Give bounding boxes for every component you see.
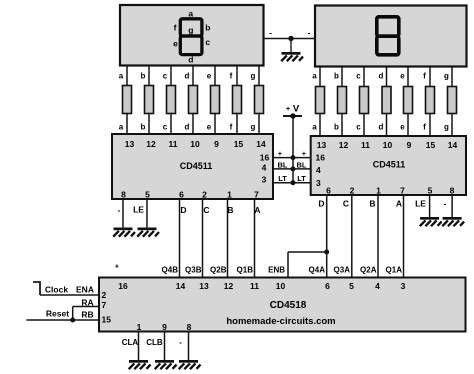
svg-text:1: 1 bbox=[376, 186, 381, 196]
svg-text:4: 4 bbox=[262, 163, 267, 173]
svg-text:LE: LE bbox=[133, 205, 144, 215]
svg-text:B: B bbox=[369, 199, 375, 209]
svg-text:+: + bbox=[115, 262, 120, 271]
ground (U1 pin 5) bbox=[137, 228, 159, 237]
display DS2 seven-segment 8 glyph bbox=[377, 17, 399, 55]
wire R7 to U1 pin (segment g) bbox=[251, 114, 259, 135]
svg-text:11: 11 bbox=[250, 281, 259, 291]
svg-text:BL: BL bbox=[278, 161, 288, 170]
wire U2 D (pin 6) to U3 Q4A (pin 6) bbox=[318, 195, 326, 278]
resistor R9 (segment b) bbox=[338, 87, 347, 114]
svg-text:3: 3 bbox=[401, 281, 406, 291]
wire U1 D (pin 6) to U3 Q4B (pin 14) bbox=[180, 199, 187, 278]
svg-text:d: d bbox=[185, 72, 190, 81]
resistor R5 (segment e) bbox=[211, 86, 220, 114]
svg-text:9: 9 bbox=[162, 322, 167, 332]
U1 top pin numbers 13 12 11 10 9 15 14 bbox=[125, 139, 266, 149]
svg-text:D: D bbox=[318, 199, 324, 209]
svg-text:+: + bbox=[286, 106, 290, 113]
U1 pin 5 LE wire to ground bbox=[133, 199, 147, 228]
wire DS2 segment e to R12 bbox=[400, 67, 408, 87]
svg-text:16: 16 bbox=[118, 281, 128, 291]
resistor R8 (segment a) bbox=[316, 87, 325, 114]
svg-text:15: 15 bbox=[102, 315, 112, 325]
svg-text:15: 15 bbox=[426, 140, 436, 150]
svg-text:a: a bbox=[312, 72, 317, 81]
wire R5 to U1 pin (segment e) bbox=[207, 114, 215, 135]
wire DS2 segment d to R11 bbox=[379, 67, 387, 87]
svg-text:f: f bbox=[423, 72, 426, 81]
resistor R14 (segment g) bbox=[448, 87, 457, 114]
svg-text:f: f bbox=[230, 72, 233, 81]
wire U1 pin4 BL to U2 pin4 BL bbox=[273, 161, 311, 170]
svg-text:a: a bbox=[119, 72, 124, 81]
resistor R13 (segment f) bbox=[426, 87, 435, 114]
svg-text:10: 10 bbox=[383, 140, 393, 150]
svg-text:3: 3 bbox=[316, 178, 321, 188]
junction dot (+V / pin16) bbox=[291, 155, 296, 160]
svg-text:-: - bbox=[308, 28, 311, 38]
svg-text:d: d bbox=[185, 123, 190, 132]
U3 pin16 + mark bbox=[115, 262, 120, 271]
svg-text:13: 13 bbox=[125, 139, 135, 149]
svg-text:V: V bbox=[293, 104, 300, 115]
U2 left side pin numbers 16 4 3 bbox=[316, 153, 326, 189]
svg-text:g: g bbox=[188, 25, 193, 35]
svg-text:f: f bbox=[174, 22, 177, 32]
clock input edge symbol bbox=[33, 282, 40, 295]
wire +V rail vertical bbox=[292, 116, 294, 183]
wire R6 to U1 pin (segment f) bbox=[230, 114, 237, 135]
wire DS1 segment g to R7 bbox=[251, 66, 259, 86]
svg-text:e: e bbox=[400, 123, 405, 132]
U1 bottom pin numbers 8 5 6 2 1 7 bbox=[121, 190, 259, 200]
resistor R3 (segment c) bbox=[167, 86, 176, 114]
svg-text:b: b bbox=[205, 22, 210, 32]
svg-text:C: C bbox=[203, 205, 209, 215]
resistor R7 (segment g) bbox=[255, 86, 264, 114]
wire U1 C (pin 2) to U3 Q3B (pin 13) bbox=[203, 199, 210, 278]
wire U1 pin16 to U2 pin16 bbox=[273, 149, 311, 158]
wire U3 CLB (pin 9) to ground bbox=[146, 332, 164, 361]
svg-text:16: 16 bbox=[260, 153, 270, 163]
svg-text:14: 14 bbox=[256, 139, 266, 149]
svg-text:6: 6 bbox=[326, 186, 331, 196]
svg-text:-: - bbox=[444, 199, 447, 209]
wire DS2 segment a to R8 bbox=[312, 67, 320, 87]
svg-text:10: 10 bbox=[276, 281, 286, 291]
junction dot (LT net) bbox=[291, 180, 296, 185]
svg-text:d: d bbox=[379, 123, 384, 132]
svg-text:g: g bbox=[251, 123, 256, 132]
wire Clock to U3 ENA (pin 2) bbox=[40, 285, 99, 296]
svg-text:8: 8 bbox=[121, 190, 126, 200]
svg-text:CLA: CLA bbox=[122, 338, 139, 347]
svg-text:b: b bbox=[334, 123, 339, 132]
svg-text:CLB: CLB bbox=[146, 338, 163, 347]
U2 bottom pin numbers 6 2 1 7 5 8 bbox=[326, 186, 455, 196]
svg-text:9: 9 bbox=[214, 139, 219, 149]
svg-text:e: e bbox=[400, 72, 405, 81]
svg-text:-: - bbox=[269, 28, 272, 38]
U1 right side pin numbers 16 4 3 bbox=[260, 153, 270, 185]
U2 top pin numbers 13 12 11 10 9 15 14 bbox=[317, 140, 458, 150]
svg-text:8: 8 bbox=[450, 186, 455, 196]
svg-text:g: g bbox=[251, 72, 256, 81]
wire U2 A (pin 7) to U3 Q1A (pin 3) bbox=[396, 195, 404, 278]
svg-text:Q2A: Q2A bbox=[360, 266, 377, 275]
junction dot (ENB-Q4A) bbox=[324, 250, 329, 255]
U3 bottom pin numbers 1 9 8 bbox=[137, 322, 192, 332]
+V supply node bbox=[283, 104, 302, 119]
svg-text:Q2B: Q2B bbox=[210, 266, 227, 275]
svg-text:f: f bbox=[230, 123, 233, 132]
svg-text:CD4511: CD4511 bbox=[373, 160, 406, 170]
display DS1 segment labels a f b g e c d bbox=[173, 9, 210, 65]
svg-text:C: C bbox=[343, 199, 349, 209]
svg-text:a: a bbox=[119, 123, 124, 132]
wire Reset to U3 RB (pin 15) bbox=[26, 309, 99, 321]
svg-text:e: e bbox=[207, 123, 212, 132]
svg-text:12: 12 bbox=[339, 140, 349, 150]
svg-text:4: 4 bbox=[316, 165, 321, 175]
resistor R2 (segment b) bbox=[145, 86, 154, 114]
svg-text:A: A bbox=[396, 199, 402, 209]
wire DS1 segment b to R2 bbox=[141, 66, 149, 86]
wire R12 to U2 pin (segment e) bbox=[400, 114, 408, 137]
svg-text:4: 4 bbox=[375, 281, 380, 291]
svg-text:CD4511: CD4511 bbox=[180, 161, 213, 171]
svg-text:a: a bbox=[188, 9, 193, 19]
svg-text:2: 2 bbox=[102, 290, 107, 300]
resistor R4 (segment d) bbox=[189, 86, 198, 114]
resistor R6 (segment f) bbox=[233, 86, 242, 114]
svg-text:9: 9 bbox=[407, 140, 412, 150]
svg-text:1: 1 bbox=[227, 190, 232, 200]
svg-text:RA: RA bbox=[81, 298, 93, 308]
svg-text:g: g bbox=[444, 123, 449, 132]
wire U3 CLA (pin 1) to ground bbox=[122, 332, 139, 361]
svg-text:2: 2 bbox=[202, 190, 207, 200]
IC U2 CD4511 (units decoder) bbox=[311, 136, 466, 195]
svg-text:B: B bbox=[227, 205, 233, 215]
resistor R12 (segment e) bbox=[404, 87, 413, 114]
svg-text:15: 15 bbox=[234, 139, 244, 149]
svg-text:7: 7 bbox=[254, 190, 259, 200]
wire R10 to U2 pin (segment c) bbox=[356, 114, 364, 137]
svg-text:BL: BL bbox=[297, 161, 307, 170]
ground (display cathodes) bbox=[281, 39, 303, 62]
U2 pin 8 wire to ground bbox=[444, 195, 453, 217]
wire R8 to U2 pin (segment a) bbox=[312, 114, 320, 137]
svg-text:14: 14 bbox=[176, 281, 186, 291]
wire DS2 segment b to R9 bbox=[334, 67, 342, 87]
svg-text:7: 7 bbox=[102, 300, 107, 310]
wire U1 B (pin 1) to U3 Q2B (pin 12) bbox=[227, 199, 233, 278]
junction dot (BL net) bbox=[291, 166, 296, 171]
svg-text:Q3A: Q3A bbox=[334, 266, 351, 275]
wire DS2 segment f to R13 bbox=[423, 67, 430, 87]
svg-text:homemade-circuits.com: homemade-circuits.com bbox=[226, 316, 335, 327]
wire DS1 segment a to R1 bbox=[119, 66, 127, 86]
svg-text:1: 1 bbox=[137, 322, 142, 332]
svg-text:e: e bbox=[173, 38, 178, 48]
wire reset branch to U3 RA (pin 7) bbox=[73, 298, 99, 321]
svg-text:f: f bbox=[423, 123, 426, 132]
svg-text:11: 11 bbox=[361, 140, 370, 150]
svg-text:c: c bbox=[163, 123, 168, 132]
ground (U3 CLB) bbox=[155, 360, 177, 369]
svg-text:b: b bbox=[334, 72, 339, 81]
svg-text:c: c bbox=[356, 123, 361, 132]
wire DS2 segment c to R10 bbox=[356, 67, 364, 87]
resistor R10 (segment c) bbox=[360, 87, 369, 114]
wire R14 to U2 pin (segment g) bbox=[444, 114, 452, 137]
svg-text:e: e bbox=[207, 72, 212, 81]
wire R11 to U2 pin (segment d) bbox=[379, 114, 387, 137]
svg-text:Q1B: Q1B bbox=[237, 266, 254, 275]
U3 output labels Q4B Q3B Q2B Q1B ENB Q4A Q3A Q2A Q1A bbox=[162, 266, 403, 275]
svg-text:Reset: Reset bbox=[46, 309, 69, 319]
wire U2 B (pin 1) to U3 Q2A (pin 4) bbox=[369, 195, 378, 278]
ground (U2 pin 8) bbox=[442, 217, 464, 226]
svg-text:c: c bbox=[163, 72, 168, 81]
svg-text:13: 13 bbox=[199, 281, 209, 291]
ground (U3 CLA) bbox=[129, 360, 151, 369]
svg-text:b: b bbox=[141, 72, 146, 81]
wire R9 to U2 pin (segment b) bbox=[334, 114, 342, 137]
svg-text:10: 10 bbox=[190, 139, 200, 149]
svg-text:RB: RB bbox=[81, 310, 93, 320]
svg-text:D: D bbox=[180, 205, 186, 215]
svg-text:13: 13 bbox=[317, 140, 327, 150]
svg-text:CD4518: CD4518 bbox=[270, 300, 307, 311]
svg-text:14: 14 bbox=[448, 140, 458, 150]
svg-text:8: 8 bbox=[187, 322, 192, 332]
wire R13 to U2 pin (segment f) bbox=[423, 114, 430, 137]
wire DS1 segment f to R6 bbox=[230, 66, 237, 86]
display DS2 (units digit) body bbox=[315, 6, 467, 67]
U3 top pin numbers bbox=[118, 281, 405, 291]
svg-text:LE: LE bbox=[415, 199, 426, 209]
svg-text:Q4B: Q4B bbox=[162, 266, 179, 275]
svg-text:LT: LT bbox=[297, 174, 306, 183]
wire U1 A (pin 7) to U3 Q1B (pin 11) bbox=[254, 199, 260, 278]
ground (U1 pin 8) bbox=[113, 228, 135, 237]
svg-text:12: 12 bbox=[224, 281, 234, 291]
svg-text:Q1A: Q1A bbox=[386, 266, 403, 275]
svg-text:A: A bbox=[254, 205, 260, 215]
svg-text:5: 5 bbox=[145, 190, 150, 200]
svg-text:d: d bbox=[188, 54, 193, 64]
svg-text:Clock: Clock bbox=[45, 285, 68, 295]
svg-text:-: - bbox=[179, 338, 182, 347]
svg-text:11: 11 bbox=[169, 139, 178, 149]
svg-text:12: 12 bbox=[146, 139, 156, 149]
wire R1 to U1 pin (segment a) bbox=[119, 114, 127, 135]
U3 left side pin numbers 2 7 15 bbox=[102, 290, 112, 325]
svg-text:g: g bbox=[444, 72, 449, 81]
U1 pin 8 wire to ground bbox=[118, 199, 123, 228]
svg-text:2: 2 bbox=[350, 186, 355, 196]
svg-text:ENA: ENA bbox=[76, 285, 94, 295]
ground (U3 pin 8) bbox=[179, 360, 201, 369]
wire R2 to U1 pin (segment b) bbox=[141, 114, 149, 135]
svg-text:16: 16 bbox=[316, 153, 326, 163]
resistor R11 (segment d) bbox=[382, 87, 391, 114]
wire DS1 segment e to R5 bbox=[207, 66, 215, 86]
wire DS1 segment d to R4 bbox=[185, 66, 193, 86]
junction dot (cathode net) bbox=[288, 36, 293, 41]
svg-text:+: + bbox=[278, 149, 283, 158]
svg-text:ENB: ENB bbox=[268, 266, 285, 275]
svg-text:LT: LT bbox=[278, 174, 287, 183]
svg-text:d: d bbox=[379, 72, 384, 81]
svg-text:c: c bbox=[356, 72, 361, 81]
junction dot (reset net) bbox=[70, 318, 75, 323]
svg-text:Q4A: Q4A bbox=[309, 266, 326, 275]
svg-text:Q3B: Q3B bbox=[185, 266, 202, 275]
svg-text:b: b bbox=[141, 123, 146, 132]
display DS1 seven-segment 8 glyph bbox=[180, 19, 202, 55]
svg-text:6: 6 bbox=[325, 281, 330, 291]
svg-text:a: a bbox=[312, 123, 317, 132]
node: common cathode wire DS1 to DS2 bbox=[264, 28, 316, 39]
svg-text:c: c bbox=[205, 37, 210, 47]
svg-text:5: 5 bbox=[349, 281, 354, 291]
U2 pin 5 LE wire to ground bbox=[415, 195, 430, 217]
ground (U2 pin 5) bbox=[420, 217, 442, 226]
svg-text:+: + bbox=[302, 149, 307, 158]
svg-text:-: - bbox=[118, 205, 121, 215]
wire DS1 segment c to R3 bbox=[163, 66, 171, 86]
wire U2 C (pin 2) to U3 Q3A (pin 5) bbox=[343, 195, 352, 278]
svg-text:6: 6 bbox=[179, 190, 184, 200]
wire DS2 segment g to R14 bbox=[444, 67, 452, 87]
wire R4 to U1 pin (segment d) bbox=[185, 114, 193, 135]
svg-text:5: 5 bbox=[428, 186, 433, 196]
display DS1 (tens digit) body bbox=[120, 5, 264, 66]
svg-text:7: 7 bbox=[400, 186, 405, 196]
wire R3 to U1 pin (segment c) bbox=[163, 114, 171, 135]
IC U1 CD4511 (tens decoder) bbox=[112, 134, 273, 199]
resistor R1 (segment a) bbox=[123, 86, 132, 114]
svg-text:3: 3 bbox=[262, 175, 267, 185]
wire U1 pin3 LT to U2 pin3 LT bbox=[273, 174, 311, 183]
wire U3 ENB (pin 10) to Q4A net bbox=[288, 252, 327, 278]
wire U3 pin 8 to ground bbox=[179, 332, 188, 361]
IC U3 CD4518 (dual BCD counter) bbox=[99, 278, 466, 332]
